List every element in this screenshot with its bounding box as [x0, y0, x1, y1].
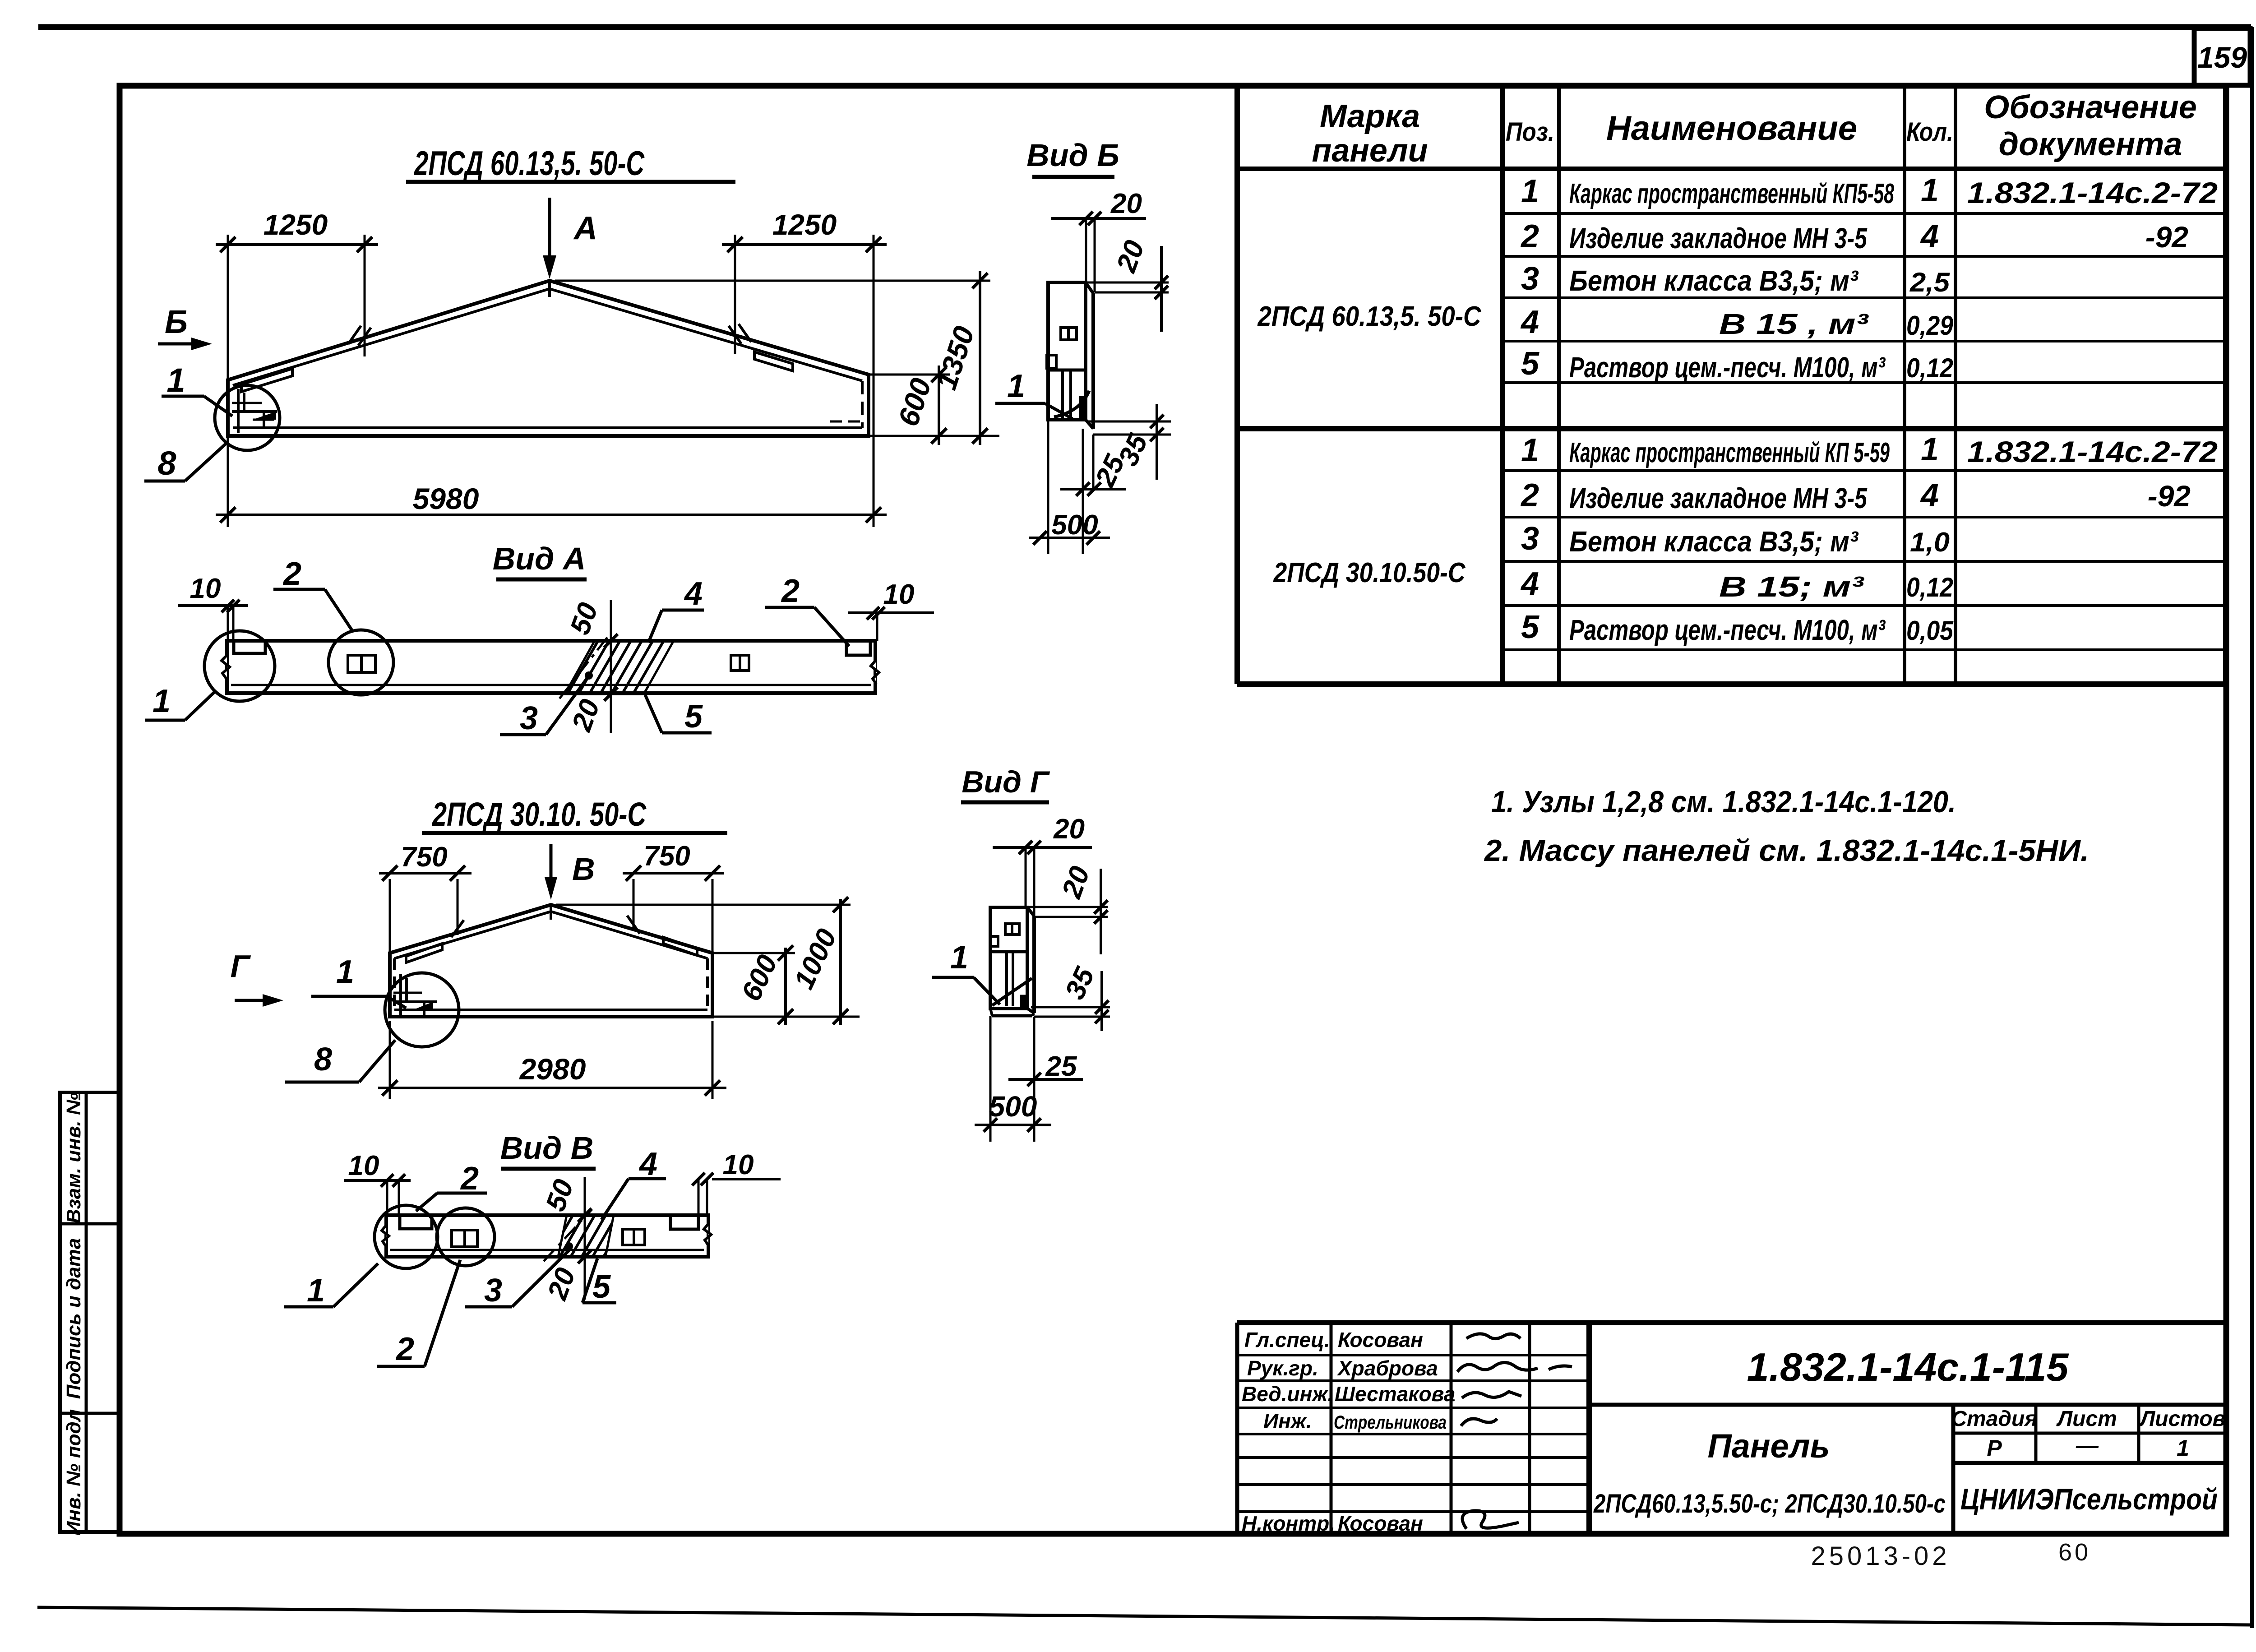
- svg-text:Марка: Марка: [1320, 98, 1420, 134]
- svg-text:Косован: Косован: [1338, 1512, 1423, 1535]
- svg-text:1350: 1350: [930, 322, 980, 393]
- svg-text:10: 10: [190, 573, 221, 604]
- svg-text:4: 4: [1520, 304, 1539, 340]
- svg-text:2: 2: [1520, 477, 1539, 514]
- svg-text:1: 1: [336, 954, 354, 990]
- svg-text:1.832.1-14с.1-115: 1.832.1-14с.1-115: [1747, 1345, 2069, 1389]
- svg-text:1,0: 1,0: [1910, 527, 1950, 557]
- svg-text:документа: документа: [1999, 126, 2182, 162]
- svg-text:1: 1: [2177, 1435, 2189, 1461]
- svg-text:1. Узлы 1,2,8 см. 1.832.1-14: 1. Узлы 1,2,8 см. 1.832.1-14с.1-120.: [1491, 785, 1956, 819]
- svg-text:—: —: [2076, 1433, 2099, 1458]
- svg-text:50: 50: [564, 599, 604, 639]
- svg-text:750: 750: [643, 841, 690, 872]
- svg-text:-92: -92: [2148, 479, 2191, 513]
- svg-text:2ПСД 60.13,5. 50-С: 2ПСД 60.13,5. 50-С: [414, 144, 645, 183]
- svg-text:Инж.: Инж.: [1263, 1409, 1312, 1433]
- svg-text:Вид А: Вид А: [493, 541, 586, 576]
- svg-text:1250: 1250: [772, 208, 837, 241]
- svg-text:Изделие закладное МН 3-5: Изделие закладное МН 3-5: [1569, 482, 1868, 514]
- svg-text:4: 4: [684, 576, 703, 612]
- svg-text:20: 20: [1053, 814, 1085, 845]
- svg-text:10: 10: [883, 579, 915, 610]
- svg-text:2: 2: [395, 1331, 414, 1367]
- svg-text:1: 1: [1921, 172, 1939, 208]
- svg-text:Раствор цем.-песч. М100, м³: Раствор цем.-песч. М100, м³: [1569, 614, 1886, 646]
- svg-text:Наименование: Наименование: [1606, 109, 1857, 148]
- svg-text:1: 1: [1921, 431, 1939, 467]
- svg-text:500: 500: [1051, 509, 1098, 541]
- svg-text:Рук.гр.: Рук.гр.: [1247, 1356, 1318, 1380]
- svg-text:0,12: 0,12: [1906, 572, 1953, 602]
- svg-text:2ПСД 60.13,5. 50-С: 2ПСД 60.13,5. 50-С: [1257, 301, 1482, 332]
- svg-text:25013-02: 25013-02: [1811, 1541, 1950, 1571]
- svg-text:159: 159: [2197, 41, 2247, 74]
- svg-text:Гл.спец.: Гл.спец.: [1244, 1328, 1330, 1351]
- svg-text:Стадия: Стадия: [1951, 1407, 2037, 1431]
- svg-text:750: 750: [401, 842, 447, 873]
- svg-text:10: 10: [723, 1149, 754, 1180]
- svg-text:1: 1: [307, 1273, 325, 1309]
- svg-text:Каркас пространственный КП 5-5: Каркас пространственный КП 5-59: [1569, 437, 1890, 468]
- svg-text:Раствор цем.-песч. М100, м³: Раствор цем.-песч. М100, м³: [1569, 351, 1886, 384]
- svg-text:-92: -92: [2145, 220, 2189, 254]
- svg-text:Кол.: Кол.: [1906, 117, 1953, 147]
- svg-text:2ПСД 30.10.50-С: 2ПСД 30.10.50-С: [1273, 557, 1466, 588]
- svg-text:20: 20: [1110, 236, 1151, 277]
- svg-text:5: 5: [592, 1269, 611, 1305]
- svg-text:А: А: [573, 210, 597, 246]
- svg-text:2: 2: [460, 1161, 479, 1197]
- svg-text:В 15 , м³: В 15 , м³: [1719, 308, 1869, 340]
- svg-text:Р: Р: [1987, 1435, 2002, 1461]
- svg-text:20: 20: [1110, 188, 1142, 219]
- svg-text:3: 3: [484, 1273, 502, 1309]
- svg-text:Вид В: Вид В: [500, 1130, 594, 1166]
- svg-text:Бетон класса В3,5; м³: Бетон класса В3,5; м³: [1569, 525, 1859, 558]
- svg-text:Б: Б: [165, 304, 188, 340]
- svg-text:панели: панели: [1312, 133, 1428, 169]
- svg-text:2: 2: [282, 556, 301, 592]
- svg-text:В 15; м³: В 15; м³: [1719, 570, 1864, 603]
- svg-text:600: 600: [735, 950, 783, 1006]
- svg-text:1: 1: [1521, 432, 1539, 468]
- svg-text:20: 20: [1056, 862, 1096, 902]
- svg-text:35: 35: [1059, 962, 1101, 1004]
- svg-text:3: 3: [1521, 521, 1539, 557]
- svg-text:Каркас пространственный КП5-58: Каркас пространственный КП5-58: [1569, 178, 1894, 209]
- svg-text:Вид Б: Вид Б: [1026, 138, 1119, 173]
- svg-text:2ПСД60.13,5.50-с; 2ПСД30.10.50: 2ПСД60.13,5.50-с; 2ПСД30.10.50-с: [1593, 1489, 1946, 1518]
- svg-text:25: 25: [1045, 1051, 1077, 1082]
- svg-text:0,29: 0,29: [1906, 310, 1954, 341]
- svg-text:8: 8: [314, 1041, 332, 1078]
- svg-text:5: 5: [1521, 346, 1539, 382]
- svg-text:3: 3: [520, 700, 538, 736]
- svg-text:Шестакова: Шестакова: [1335, 1382, 1455, 1406]
- svg-text:3: 3: [1521, 261, 1539, 297]
- svg-text:50: 50: [540, 1175, 580, 1215]
- svg-text:4: 4: [1920, 218, 1939, 255]
- svg-text:1.832.1-14с.2-72: 1.832.1-14с.2-72: [1967, 435, 2218, 468]
- svg-text:Г: Г: [231, 949, 251, 984]
- svg-text:Инв. № подл: Инв. № подл: [63, 1409, 85, 1536]
- svg-text:Косован: Косован: [1338, 1328, 1423, 1351]
- svg-text:5: 5: [1521, 609, 1539, 645]
- svg-text:5980: 5980: [413, 482, 479, 515]
- svg-text:Обозначение: Обозначение: [1984, 89, 2197, 125]
- svg-text:4: 4: [1920, 477, 1939, 514]
- svg-text:Храброва: Храброва: [1336, 1356, 1438, 1380]
- svg-text:В: В: [572, 851, 595, 887]
- svg-text:Лист: Лист: [2056, 1407, 2117, 1431]
- svg-text:5: 5: [684, 699, 703, 735]
- svg-text:2ПСД 30.10. 50-С: 2ПСД 30.10. 50-С: [431, 796, 647, 833]
- svg-text:Стрельникова: Стрельникова: [1334, 1411, 1447, 1433]
- svg-text:Н.контр.: Н.контр.: [1242, 1512, 1335, 1535]
- svg-text:ЦНИИЭПсельстрой: ЦНИИЭПсельстрой: [1960, 1482, 2218, 1516]
- svg-text:Поз.: Поз.: [1506, 117, 1554, 147]
- svg-text:1.832.1-14с.2-72: 1.832.1-14с.2-72: [1967, 176, 2218, 209]
- svg-text:Вед.инж.: Вед.инж.: [1242, 1382, 1333, 1406]
- svg-text:60: 60: [2058, 1539, 2091, 1566]
- svg-text:Панель: Панель: [1707, 1427, 1830, 1465]
- svg-text:0,05: 0,05: [1906, 615, 1954, 646]
- svg-text:8: 8: [157, 444, 176, 482]
- svg-text:1: 1: [950, 939, 968, 976]
- svg-text:2,5: 2,5: [1909, 267, 1951, 297]
- svg-text:Бетон класса В3,5; м³: Бетон класса В3,5; м³: [1569, 264, 1859, 297]
- svg-text:0,12: 0,12: [1906, 353, 1953, 383]
- svg-text:1: 1: [153, 683, 171, 719]
- svg-text:Изделие закладное МН 3-5: Изделие закладное МН 3-5: [1569, 222, 1868, 255]
- svg-text:1000: 1000: [788, 924, 843, 994]
- svg-text:Взам. инв. №: Взам. инв. №: [63, 1092, 85, 1224]
- svg-text:4: 4: [638, 1146, 657, 1182]
- svg-text:Листов: Листов: [2139, 1407, 2225, 1431]
- svg-text:1: 1: [1007, 368, 1025, 404]
- svg-text:2. Массу панелей см. 1.832.1-1: 2. Массу панелей см. 1.832.1-14с.1-5НИ.: [1484, 833, 2089, 868]
- svg-text:1250: 1250: [264, 208, 328, 241]
- svg-text:2: 2: [1520, 218, 1539, 255]
- svg-text:2980: 2980: [519, 1052, 586, 1086]
- svg-text:4: 4: [1520, 566, 1539, 602]
- svg-text:1: 1: [1521, 173, 1539, 209]
- svg-text:10: 10: [348, 1150, 379, 1181]
- svg-text:2: 2: [781, 573, 800, 609]
- svg-text:Вид Г: Вид Г: [962, 765, 1050, 799]
- svg-text:Подпись и дата: Подпись и дата: [63, 1238, 85, 1399]
- svg-text:1: 1: [166, 361, 185, 399]
